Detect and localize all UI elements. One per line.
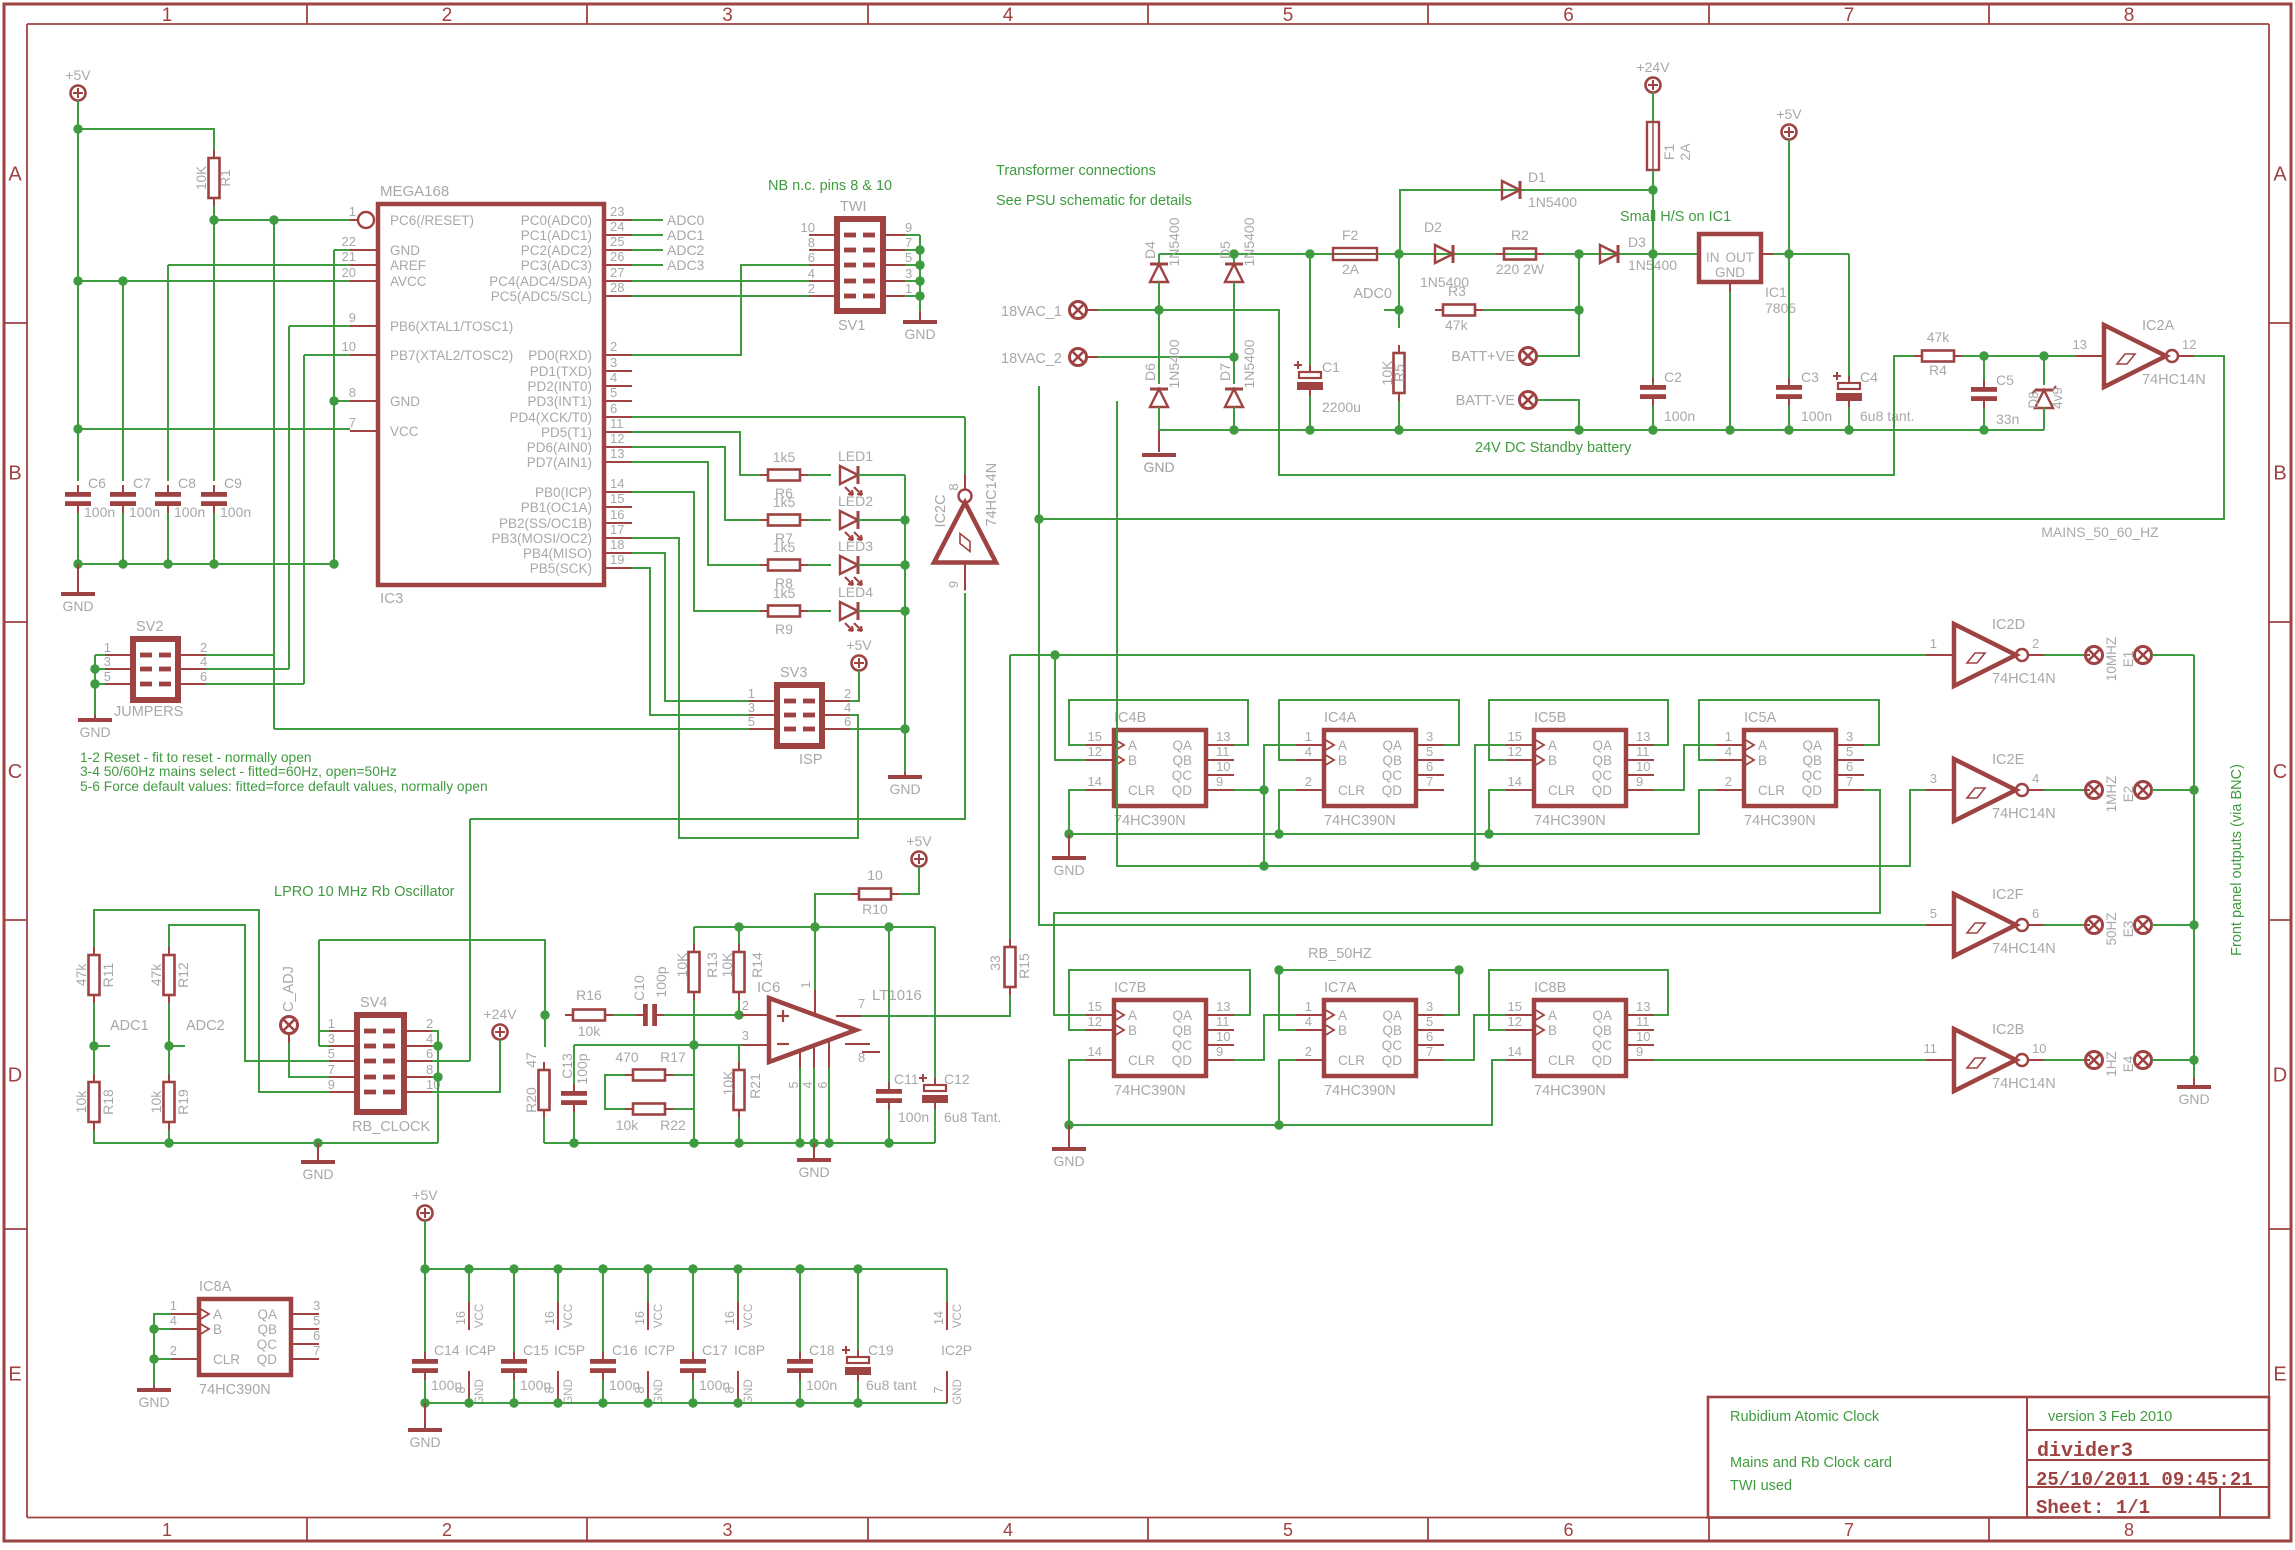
svg-text:8: 8	[723, 1386, 737, 1393]
svg-text:100n: 100n	[1664, 408, 1695, 424]
svg-text:5: 5	[1930, 906, 1937, 921]
svg-text:74HC390N: 74HC390N	[199, 1382, 271, 1398]
svg-text:16: 16	[610, 507, 624, 522]
svg-text:5: 5	[610, 385, 617, 400]
svg-text:C17: C17	[702, 1342, 728, 1358]
svg-text:IC7A: IC7A	[1324, 980, 1357, 996]
svg-text:100p: 100p	[653, 966, 669, 997]
svg-text:C11: C11	[894, 1071, 919, 1087]
svg-text:PC4(ADC4/SDA): PC4(ADC4/SDA)	[489, 274, 592, 289]
svg-text:IC4A: IC4A	[1324, 710, 1357, 726]
svg-text:RB_CLOCK: RB_CLOCK	[352, 1119, 430, 1135]
svg-text:PB6(XTAL1/TOSC1): PB6(XTAL1/TOSC1)	[390, 319, 513, 334]
svg-text:26: 26	[610, 249, 624, 264]
svg-text:4: 4	[1305, 744, 1312, 759]
svg-text:3: 3	[722, 5, 733, 26]
svg-text:10: 10	[801, 220, 815, 235]
svg-text:D4: D4	[1142, 241, 1158, 259]
svg-text:B: B	[8, 463, 21, 485]
svg-text:version 3 Feb 2010: version 3 Feb 2010	[2048, 1409, 2172, 1425]
svg-text:QD: QD	[1592, 1053, 1613, 1068]
svg-text:14: 14	[1508, 1044, 1522, 1059]
svg-text:CLR: CLR	[1338, 1053, 1365, 1068]
svg-text:Front panel outputs (via BNC): Front panel outputs (via BNC)	[2229, 764, 2245, 956]
svg-text:4: 4	[200, 654, 207, 669]
svg-text:5: 5	[748, 714, 755, 729]
svg-text:QA: QA	[1382, 1008, 1402, 1023]
svg-text:D: D	[2273, 1065, 2287, 1087]
svg-text:IC4P: IC4P	[465, 1342, 496, 1358]
svg-text:1HZ: 1HZ	[2104, 1051, 2119, 1077]
svg-text:8: 8	[946, 483, 961, 490]
svg-text:6u8 tant: 6u8 tant	[866, 1377, 917, 1393]
svg-text:IC2F: IC2F	[1992, 887, 2024, 903]
svg-text:GND: GND	[653, 1379, 665, 1405]
svg-text:1: 1	[1305, 729, 1312, 744]
svg-text:GND: GND	[2178, 1091, 2209, 1107]
svg-text:TWI used: TWI used	[1730, 1478, 1792, 1494]
svg-text:+24V: +24V	[1636, 59, 1670, 75]
svg-text:8: 8	[633, 1386, 647, 1393]
svg-text:6: 6	[808, 250, 815, 265]
svg-text:6: 6	[2032, 906, 2039, 921]
svg-text:1: 1	[328, 1016, 335, 1031]
svg-text:R1: R1	[218, 169, 233, 186]
svg-text:GND: GND	[302, 1166, 333, 1182]
svg-text:GND: GND	[390, 243, 420, 258]
svg-text:IC2C: IC2C	[933, 494, 949, 527]
svg-text:14: 14	[1088, 774, 1102, 789]
svg-text:7: 7	[1844, 5, 1855, 26]
svg-text:BATT+VE: BATT+VE	[1451, 349, 1515, 365]
svg-text:100n: 100n	[1801, 408, 1832, 424]
svg-text:QB: QB	[1592, 1023, 1612, 1038]
svg-text:PB7(XTAL2/TOSC2): PB7(XTAL2/TOSC2)	[390, 348, 513, 363]
svg-text:1: 1	[1930, 636, 1937, 651]
svg-text:8: 8	[454, 1386, 468, 1393]
svg-text:16: 16	[454, 1311, 468, 1325]
svg-text:IC8P: IC8P	[734, 1342, 765, 1358]
svg-text:IC2A: IC2A	[2142, 318, 2175, 334]
svg-text:CLR: CLR	[1548, 1053, 1575, 1068]
svg-text:9: 9	[1636, 774, 1643, 789]
svg-text:C10: C10	[631, 975, 647, 1001]
svg-text:IC7P: IC7P	[644, 1342, 675, 1358]
svg-text:PC1(ADC1): PC1(ADC1)	[521, 228, 592, 243]
svg-text:9: 9	[328, 1077, 335, 1092]
svg-text:74HC390N: 74HC390N	[1534, 813, 1606, 829]
svg-text:VCC: VCC	[474, 1304, 486, 1328]
svg-text:QA: QA	[1592, 1008, 1612, 1023]
svg-text:74HC14N: 74HC14N	[1992, 671, 2056, 687]
svg-text:QB: QB	[1592, 753, 1612, 768]
svg-text:B: B	[1548, 753, 1557, 768]
svg-text:R21: R21	[747, 1073, 763, 1099]
svg-text:74HC14N: 74HC14N	[984, 463, 1000, 527]
svg-text:3: 3	[610, 355, 617, 370]
svg-text:3: 3	[722, 1520, 732, 1540]
svg-text:TWI: TWI	[840, 199, 867, 215]
svg-text:JUMPERS: JUMPERS	[114, 704, 183, 720]
svg-text:PB4(MISO): PB4(MISO)	[523, 546, 592, 561]
svg-text:8: 8	[2124, 1520, 2134, 1540]
svg-text:D: D	[8, 1065, 22, 1087]
svg-text:F2: F2	[1342, 227, 1359, 243]
svg-text:IC4B: IC4B	[1114, 710, 1146, 726]
svg-text:C: C	[2273, 761, 2287, 783]
svg-text:IC2E: IC2E	[1992, 752, 2025, 768]
svg-text:R22: R22	[660, 1117, 686, 1133]
svg-text:15: 15	[1088, 729, 1102, 744]
svg-text:5: 5	[313, 1313, 320, 1328]
svg-text:QB: QB	[1172, 753, 1192, 768]
svg-text:1: 1	[170, 1298, 177, 1313]
svg-text:9: 9	[905, 220, 912, 235]
svg-text:QC: QC	[1592, 768, 1613, 783]
svg-text:VCC: VCC	[653, 1304, 665, 1328]
svg-text:GND: GND	[1053, 862, 1084, 878]
svg-text:11: 11	[1636, 744, 1650, 759]
svg-text:2: 2	[1725, 774, 1732, 789]
svg-text:17: 17	[610, 522, 624, 537]
svg-text:33: 33	[987, 955, 1003, 971]
svg-text:LED1: LED1	[838, 448, 873, 464]
svg-text:15: 15	[1508, 999, 1522, 1014]
svg-text:4v9: 4v9	[2050, 387, 2065, 409]
svg-text:12: 12	[2182, 337, 2196, 352]
svg-text:MEGA168: MEGA168	[380, 183, 449, 200]
svg-text:9: 9	[349, 310, 356, 325]
svg-text:PB0(ICP): PB0(ICP)	[535, 485, 592, 500]
svg-text:QD: QD	[1802, 783, 1823, 798]
svg-text:1: 1	[162, 5, 173, 26]
svg-text:2: 2	[200, 640, 207, 655]
svg-text:QA: QA	[1382, 738, 1402, 753]
svg-text:CLR: CLR	[213, 1352, 240, 1367]
svg-text:4: 4	[1305, 1014, 1312, 1029]
svg-text:QC: QC	[1172, 1038, 1193, 1053]
svg-text:Transformer connections: Transformer connections	[996, 163, 1156, 179]
svg-text:CLR: CLR	[1338, 783, 1365, 798]
svg-text:OUT: OUT	[1726, 250, 1755, 265]
svg-text:7805: 7805	[1765, 300, 1796, 316]
svg-text:100n: 100n	[898, 1109, 929, 1125]
svg-text:23: 23	[610, 204, 624, 219]
svg-text:74HC390N: 74HC390N	[1114, 1083, 1186, 1099]
svg-text:QC: QC	[1382, 1038, 1403, 1053]
svg-text:R19: R19	[175, 1089, 191, 1115]
svg-text:D8: D8	[2026, 391, 2041, 408]
svg-text:QA: QA	[1802, 738, 1822, 753]
svg-text:R11: R11	[100, 962, 116, 987]
svg-text:B: B	[1548, 1023, 1557, 1038]
svg-text:10: 10	[1216, 1029, 1230, 1044]
svg-text:100n: 100n	[220, 504, 251, 520]
svg-text:C19: C19	[868, 1342, 894, 1358]
svg-text:10: 10	[1636, 1029, 1650, 1044]
svg-text:PD5(T1): PD5(T1)	[541, 425, 592, 440]
svg-text:LT1016: LT1016	[872, 987, 922, 1004]
svg-text:GND: GND	[904, 326, 935, 342]
svg-text:5-6 Force default values: fitt: 5-6 Force default values: fitted=force d…	[80, 779, 488, 794]
svg-text:D2: D2	[1424, 219, 1442, 235]
svg-text:6u8 tant.: 6u8 tant.	[1860, 408, 1915, 424]
svg-text:5: 5	[1426, 1014, 1433, 1029]
svg-text:6u8 Tant.: 6u8 Tant.	[944, 1109, 1001, 1125]
svg-text:+5V: +5V	[906, 833, 932, 849]
svg-text:10MHZ: 10MHZ	[2104, 637, 2119, 681]
svg-text:QA: QA	[1592, 738, 1612, 753]
svg-text:PB5(SCK): PB5(SCK)	[530, 561, 592, 576]
svg-text:2: 2	[808, 281, 815, 296]
svg-text:2: 2	[170, 1343, 177, 1358]
svg-text:NB n.c. pins 8 & 10: NB n.c. pins 8 & 10	[768, 178, 892, 194]
svg-text:GND: GND	[1143, 459, 1174, 475]
svg-text:GND: GND	[798, 1164, 829, 1180]
svg-text:1: 1	[349, 204, 356, 219]
svg-text:IC2D: IC2D	[1992, 617, 2025, 633]
svg-text:6: 6	[1563, 5, 1574, 26]
svg-text:13: 13	[1636, 999, 1650, 1014]
svg-text:RB_50HZ: RB_50HZ	[1308, 946, 1372, 962]
svg-text:QA: QA	[257, 1307, 277, 1322]
svg-text:5: 5	[1846, 744, 1853, 759]
svg-text:Rubidium Atomic Clock: Rubidium Atomic Clock	[1730, 1409, 1880, 1425]
svg-text:IC7B: IC7B	[1114, 980, 1146, 996]
svg-text:QC: QC	[257, 1337, 278, 1352]
svg-text:11: 11	[1636, 1014, 1650, 1029]
svg-text:AREF: AREF	[390, 258, 426, 273]
svg-text:GND: GND	[743, 1379, 755, 1405]
svg-text:28: 28	[610, 280, 624, 295]
svg-text:CLR: CLR	[1548, 783, 1575, 798]
svg-text:74HC390N: 74HC390N	[1324, 813, 1396, 829]
svg-text:1N5400: 1N5400	[1241, 217, 1257, 266]
svg-text:D5: D5	[1217, 241, 1233, 259]
svg-text:3: 3	[104, 654, 111, 669]
svg-text:R4: R4	[1929, 362, 1947, 378]
svg-text:QD: QD	[1172, 1053, 1193, 1068]
svg-text:LED3: LED3	[838, 538, 873, 554]
svg-text:7: 7	[1846, 774, 1853, 789]
svg-text:A: A	[1548, 1008, 1557, 1023]
svg-text:10k: 10k	[73, 1090, 89, 1114]
svg-text:4: 4	[1003, 1520, 1013, 1540]
svg-text:1k5: 1k5	[773, 585, 796, 601]
svg-text:C9: C9	[224, 475, 242, 491]
svg-text:R3: R3	[1448, 283, 1466, 299]
svg-text:3: 3	[905, 266, 912, 281]
svg-text:20: 20	[342, 265, 356, 280]
svg-text:5: 5	[1283, 1520, 1293, 1540]
svg-text:2: 2	[742, 998, 749, 1013]
svg-text:5: 5	[787, 1081, 801, 1088]
svg-text:IC1: IC1	[1765, 284, 1787, 300]
svg-text:A: A	[1338, 1008, 1347, 1023]
svg-text:13: 13	[2073, 337, 2087, 352]
svg-text:16: 16	[543, 1311, 557, 1325]
svg-text:IC2B: IC2B	[1992, 1022, 2024, 1038]
svg-text:ADC2: ADC2	[186, 1018, 225, 1034]
svg-text:2: 2	[1305, 774, 1312, 789]
svg-text:12: 12	[1088, 744, 1102, 759]
svg-text:100n: 100n	[129, 504, 160, 520]
svg-text:10K: 10K	[720, 1070, 736, 1096]
svg-text:2: 2	[442, 1520, 452, 1540]
svg-text:A: A	[8, 164, 22, 186]
svg-text:ISP: ISP	[799, 752, 822, 768]
svg-text:1N5400: 1N5400	[1241, 339, 1257, 388]
svg-text:GND: GND	[1053, 1153, 1084, 1169]
svg-text:10: 10	[867, 867, 883, 883]
svg-text:2: 2	[426, 1016, 433, 1031]
svg-text:5: 5	[328, 1046, 335, 1061]
svg-text:14: 14	[1088, 1044, 1102, 1059]
svg-text:47k: 47k	[73, 963, 89, 987]
svg-text:8: 8	[543, 1386, 557, 1393]
svg-text:18VAC_1: 18VAC_1	[1001, 304, 1062, 320]
svg-text:E: E	[8, 1363, 21, 1385]
svg-text:B: B	[2273, 463, 2286, 485]
svg-text:50HZ: 50HZ	[2104, 912, 2119, 945]
svg-text:6: 6	[816, 1081, 830, 1088]
svg-text:A: A	[1758, 738, 1767, 753]
svg-text:33n: 33n	[1996, 411, 2019, 427]
svg-text:12: 12	[1508, 744, 1522, 759]
svg-text:1-2 Reset - fit to reset - nor: 1-2 Reset - fit to reset - normally open	[80, 750, 312, 765]
svg-text:QB: QB	[1172, 1023, 1192, 1038]
svg-text:1: 1	[748, 686, 755, 701]
svg-text:QD: QD	[257, 1352, 278, 1367]
svg-text:PD1(TXD): PD1(TXD)	[530, 364, 592, 379]
svg-text:10K: 10K	[719, 952, 735, 978]
svg-text:See PSU schematic for details: See PSU schematic for details	[996, 193, 1192, 209]
svg-text:8: 8	[349, 385, 356, 400]
svg-text:10: 10	[1216, 759, 1230, 774]
svg-text:2: 2	[1305, 1044, 1312, 1059]
svg-text:QB: QB	[1382, 753, 1402, 768]
svg-text:4: 4	[1725, 744, 1732, 759]
svg-text:6: 6	[1563, 1520, 1573, 1540]
svg-text:10k: 10k	[578, 1023, 602, 1039]
svg-text:ADC1: ADC1	[667, 227, 705, 243]
svg-text:D1: D1	[1528, 169, 1546, 185]
svg-text:LED4: LED4	[838, 584, 873, 600]
svg-text:GND: GND	[138, 1394, 169, 1410]
svg-text:C6: C6	[88, 475, 106, 491]
svg-text:ADC1: ADC1	[110, 1018, 149, 1034]
svg-text:4: 4	[610, 370, 617, 385]
svg-text:C3: C3	[1801, 369, 1819, 385]
svg-text:7: 7	[932, 1386, 946, 1393]
svg-text:PB1(OC1A): PB1(OC1A)	[521, 500, 592, 515]
svg-text:PC0(ADC0): PC0(ADC0)	[521, 213, 592, 228]
svg-text:ADC0: ADC0	[1353, 286, 1392, 302]
svg-text:PD4(XCK/T0): PD4(XCK/T0)	[509, 410, 592, 425]
svg-text:PC2(ADC2): PC2(ADC2)	[521, 243, 592, 258]
svg-text:QB: QB	[1382, 1023, 1402, 1038]
svg-text:7: 7	[349, 415, 356, 430]
svg-text:13: 13	[1636, 729, 1650, 744]
svg-text:6: 6	[200, 669, 207, 684]
svg-text:16: 16	[633, 1311, 647, 1325]
svg-text:1N5400: 1N5400	[1166, 339, 1182, 388]
svg-text:B: B	[1128, 753, 1137, 768]
svg-text:divider3: divider3	[2037, 1440, 2133, 1463]
svg-text:4: 4	[1003, 5, 1014, 26]
svg-text:24: 24	[610, 219, 624, 234]
svg-text:PD0(RXD): PD0(RXD)	[528, 348, 592, 363]
svg-text:47k: 47k	[148, 963, 164, 987]
svg-text:R2: R2	[1511, 227, 1529, 243]
svg-text:6: 6	[426, 1046, 433, 1061]
svg-text:4: 4	[170, 1313, 177, 1328]
svg-text:IC8A: IC8A	[199, 1279, 232, 1295]
svg-text:18VAC_2: 18VAC_2	[1001, 351, 1062, 367]
svg-text:R17: R17	[660, 1049, 686, 1065]
svg-text:C4: C4	[1860, 369, 1878, 385]
svg-text:5: 5	[905, 250, 912, 265]
svg-text:LPRO 10 MHz Rb Oscillator: LPRO 10 MHz Rb Oscillator	[274, 884, 455, 900]
svg-text:13: 13	[1216, 999, 1230, 1014]
svg-text:A: A	[1338, 738, 1347, 753]
svg-text:+24V: +24V	[483, 1006, 517, 1022]
svg-text:C13: C13	[559, 1053, 575, 1079]
svg-text:1N5400: 1N5400	[1528, 194, 1577, 210]
svg-text:18: 18	[610, 537, 624, 552]
svg-text:2: 2	[844, 686, 851, 701]
svg-text:PD2(INT0): PD2(INT0)	[527, 379, 592, 394]
svg-text:14: 14	[932, 1311, 946, 1325]
svg-text:C18: C18	[809, 1342, 835, 1358]
svg-text:QD: QD	[1172, 783, 1193, 798]
svg-text:8: 8	[426, 1062, 433, 1077]
svg-text:C12: C12	[944, 1071, 970, 1087]
svg-text:QD: QD	[1382, 1053, 1403, 1068]
svg-text:QC: QC	[1802, 768, 1823, 783]
svg-text:C14: C14	[434, 1342, 460, 1358]
svg-text:10: 10	[2032, 1041, 2046, 1056]
svg-text:4: 4	[426, 1031, 433, 1046]
svg-text:22: 22	[342, 234, 356, 249]
svg-text:14: 14	[610, 476, 624, 491]
svg-text:ADC3: ADC3	[667, 257, 705, 273]
svg-text:LED2: LED2	[838, 493, 873, 509]
svg-text:PD7(AIN1): PD7(AIN1)	[527, 455, 592, 470]
svg-text:C15: C15	[523, 1342, 549, 1358]
svg-text:+5V: +5V	[65, 67, 91, 83]
svg-text:CLR: CLR	[1128, 1053, 1155, 1068]
svg-text:GND: GND	[409, 1434, 440, 1450]
svg-text:3: 3	[742, 1028, 749, 1043]
svg-text:SV1: SV1	[838, 318, 865, 334]
svg-text:7: 7	[313, 1343, 320, 1358]
svg-text:9: 9	[946, 581, 961, 588]
svg-text:VCC: VCC	[952, 1304, 964, 1328]
svg-text:74HC390N: 74HC390N	[1534, 1083, 1606, 1099]
svg-text:74HC14N: 74HC14N	[1992, 941, 2056, 957]
svg-text:C8: C8	[178, 475, 196, 491]
svg-text:PC6(/RESET): PC6(/RESET)	[390, 213, 474, 228]
svg-text:10K: 10K	[194, 166, 209, 190]
svg-text:F1: F1	[1661, 144, 1677, 161]
svg-text:QA: QA	[1172, 1008, 1192, 1023]
svg-text:10k: 10k	[148, 1090, 164, 1114]
svg-text:C16: C16	[612, 1342, 638, 1358]
svg-text:Sheet: 1/1: Sheet: 1/1	[2036, 1497, 2150, 1519]
svg-text:2A: 2A	[1677, 143, 1693, 161]
svg-text:4: 4	[2032, 771, 2039, 786]
